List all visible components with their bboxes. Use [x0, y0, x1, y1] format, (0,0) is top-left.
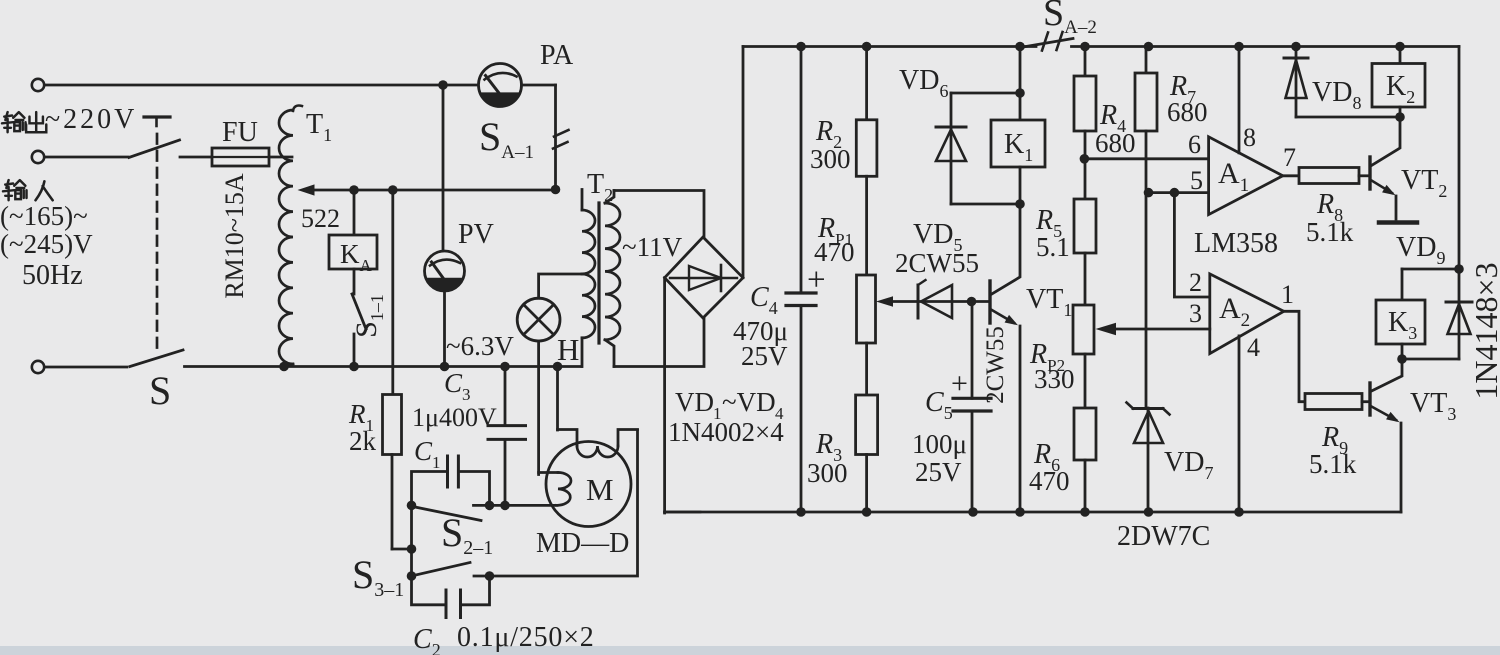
switch S lower pole — [130, 350, 183, 413]
wire bridge minus down — [665, 278, 700, 513]
capacitor C3 — [412, 367, 526, 506]
potentiometer RP2 — [1029, 305, 1094, 408]
svg-text:330: 330 — [1034, 364, 1075, 394]
wire pin5 row — [1144, 188, 1209, 198]
svg-text:5.1k: 5.1k — [1306, 217, 1354, 247]
capacitor C4 — [733, 47, 826, 513]
svg-text:2: 2 — [1189, 268, 1202, 297]
pin 8 — [1239, 47, 1256, 153]
label input — [3, 180, 53, 200]
wire PA to switch SA-1 — [522, 85, 556, 190]
switch SA-1 — [479, 114, 569, 163]
wire top AC rail — [45, 80, 479, 90]
wire VD6 to K1 top — [951, 88, 1025, 98]
resistor R5 — [1035, 199, 1096, 305]
svg-text:25V: 25V — [915, 457, 962, 487]
wire switch to fuse — [180, 156, 213, 159]
voltmeter PV — [425, 85, 494, 367]
zener VD7 — [1127, 403, 1214, 513]
svg-text:S: S — [149, 368, 171, 413]
bridge rectifier VD1-VD4 — [665, 237, 785, 447]
wire lamp bottom — [537, 341, 540, 475]
wire input to switch S — [45, 156, 129, 159]
label RM10~15A — [220, 173, 249, 299]
svg-text:1: 1 — [1281, 280, 1294, 309]
svg-text:470: 470 — [1029, 466, 1070, 496]
potentiometer RP1 — [814, 176, 876, 395]
svg-text:PA: PA — [540, 40, 574, 71]
svg-text:5: 5 — [1190, 166, 1203, 195]
wire DC top rail left — [743, 42, 1036, 52]
terminal input mid — [32, 151, 44, 163]
motor left winding — [539, 473, 571, 506]
svg-text:FU: FU — [222, 117, 258, 148]
wire K3 top link — [1402, 264, 1464, 300]
svg-text:5.1: 5.1 — [1036, 232, 1070, 262]
diode VD9 1N4148 — [1402, 269, 1472, 359]
pin 6 label — [1188, 130, 1201, 159]
wire fuse to T1 — [269, 156, 292, 159]
pin 4 — [1239, 333, 1260, 512]
svg-text:2CW55: 2CW55 — [982, 326, 1009, 404]
pin 2 label — [1189, 268, 1202, 297]
switch S1-1 — [350, 294, 387, 367]
svg-text:25V: 25V — [741, 341, 788, 371]
svg-text:522: 522 — [301, 204, 340, 233]
label 2DW7C — [1117, 521, 1210, 552]
svg-text:680: 680 — [1167, 97, 1208, 127]
switch S3-1 — [352, 552, 494, 601]
ammeter PA — [479, 40, 575, 107]
wire right edge down — [1458, 47, 1461, 270]
svg-text:300: 300 — [810, 144, 851, 174]
diode VD8 — [1284, 47, 1361, 118]
motor M — [546, 442, 631, 527]
capacitor C1 — [412, 436, 490, 505]
transformer T1 winding — [279, 106, 332, 367]
pin 3 wire — [1096, 299, 1210, 335]
wire VD8 to VT2 collector — [1296, 112, 1405, 122]
label range 245 — [0, 229, 93, 259]
wire AC bottom rail — [185, 362, 582, 372]
svg-text:LM358: LM358 — [1194, 228, 1278, 259]
op-amp A2 — [1210, 274, 1284, 354]
terminal input bottom — [32, 361, 44, 373]
svg-text:4: 4 — [1247, 333, 1260, 362]
svg-text:MD—D: MD—D — [536, 528, 629, 559]
svg-text:(~165)~: (~165)~ — [0, 201, 88, 231]
transistor VT2 — [1370, 117, 1447, 223]
svg-text:VD: VD — [675, 387, 714, 417]
pin 7 — [1283, 143, 1299, 176]
label output 220V — [2, 104, 137, 135]
wire R1 bottom junction — [392, 455, 416, 577]
resistor R9 — [1305, 394, 1370, 480]
svg-text:~220V: ~220V — [45, 104, 137, 135]
svg-text:3: 3 — [1189, 299, 1202, 328]
wire wiper row — [312, 185, 560, 195]
wire lamp top to T2 tap — [539, 274, 582, 298]
switch S upper pole — [129, 117, 180, 158]
pin 5 label — [1190, 166, 1203, 195]
wire VD6 to K1 bottom — [951, 199, 1025, 209]
fuse FU — [212, 117, 269, 166]
capacitor C5 — [912, 302, 991, 513]
svg-text:H: H — [557, 332, 579, 367]
svg-text:1N4002×4: 1N4002×4 — [668, 417, 784, 447]
svg-text:~VD: ~VD — [722, 387, 776, 417]
transistor VT1 — [972, 204, 1073, 512]
resistor R1 — [348, 395, 402, 457]
resistor R3 — [807, 395, 878, 512]
svg-text:300: 300 — [807, 458, 848, 488]
terminal output-220V top — [32, 79, 44, 91]
relay K3 — [1376, 300, 1425, 364]
svg-text:M: M — [586, 472, 614, 507]
svg-text:RM10~15A: RM10~15A — [220, 173, 249, 299]
svg-text:~11V: ~11V — [622, 232, 683, 262]
switch S2-1 — [413, 507, 494, 560]
resistor R7 — [1135, 47, 1208, 409]
svg-text:5.1k: 5.1k — [1309, 449, 1357, 479]
svg-text:7: 7 — [1283, 143, 1296, 172]
label ~6.3V — [446, 331, 514, 361]
label LM358 — [1194, 228, 1278, 259]
label VD9 — [1396, 232, 1445, 268]
motor top winding — [558, 430, 638, 458]
svg-text:2DW7C: 2DW7C — [1117, 521, 1210, 552]
wire row 505 — [407, 501, 557, 511]
relay K2 — [1372, 47, 1425, 118]
resistor R4 — [1074, 47, 1136, 200]
wire S3-1 to motor return — [490, 430, 638, 576]
label MD-D — [536, 528, 629, 559]
resistor R8 — [1299, 168, 1370, 248]
wire DC bottom rail — [665, 507, 1401, 517]
wire T2 secondary bottom to bridge — [614, 318, 704, 367]
svg-text:PV: PV — [458, 219, 494, 250]
resistor R6 — [1029, 408, 1096, 512]
label 2CW55 vertical — [982, 326, 1009, 404]
wire motor feed — [556, 367, 559, 431]
diode VD6 — [899, 65, 966, 204]
gang link dashed — [156, 134, 159, 349]
svg-text:1N4148×3: 1N4148×3 — [1468, 262, 1500, 399]
svg-text:1μ400V: 1μ400V — [412, 403, 497, 432]
wire pin6 row — [1080, 154, 1209, 164]
svg-text:0.1μ/250×2: 0.1μ/250×2 — [457, 622, 595, 653]
svg-text:~6.3V: ~6.3V — [446, 331, 514, 361]
switch SA-2 — [1023, 0, 1097, 51]
wire DC top rail right — [1072, 42, 1460, 52]
transistor VT3 — [1370, 359, 1456, 512]
label 1N4148x3 vertical — [1468, 262, 1500, 399]
svg-text:50Hz: 50Hz — [22, 260, 83, 291]
zener VD5 — [876, 219, 979, 318]
svg-text:470: 470 — [814, 237, 855, 267]
svg-text:(~245)V: (~245)V — [0, 229, 93, 259]
svg-text:8: 8 — [1243, 123, 1256, 152]
relay K1 — [991, 47, 1045, 205]
wire pin2 link — [1174, 193, 1209, 297]
transformer T2 — [582, 169, 683, 367]
T1 wiper arrow and label 522 — [298, 184, 341, 233]
wire to lower switch — [45, 366, 128, 369]
relay coil KA — [329, 190, 377, 294]
lamp H — [517, 298, 579, 367]
svg-text:6: 6 — [1188, 130, 1201, 159]
label 50Hz — [22, 260, 83, 291]
svg-text:+: + — [951, 367, 968, 400]
svg-text:2k: 2k — [349, 426, 377, 456]
wire T2 secondary top to bridge — [614, 191, 704, 238]
svg-text:2CW55: 2CW55 — [895, 248, 979, 278]
svg-text:100μ: 100μ — [912, 429, 967, 459]
svg-text:+: + — [807, 262, 826, 298]
capacitor C2 — [412, 576, 595, 655]
label range 165 — [0, 201, 88, 231]
svg-text:680: 680 — [1095, 128, 1136, 158]
pin 1 wire — [1281, 280, 1305, 402]
wire bridge plus up — [742, 47, 745, 278]
op-amp A1 — [1209, 137, 1283, 215]
wire column x393 — [391, 190, 394, 395]
resistor R2 — [810, 47, 877, 177]
